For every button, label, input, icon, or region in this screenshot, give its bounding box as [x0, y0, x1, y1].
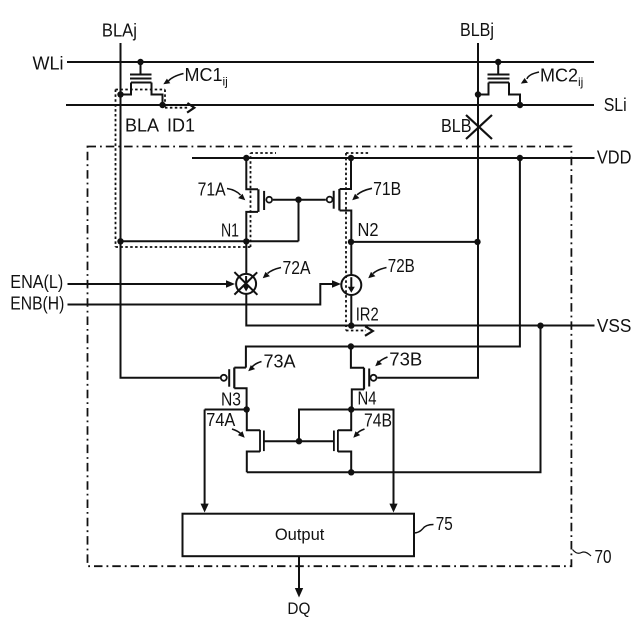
wire N1 to 72A: [245, 241, 247, 274]
arrowhead ID1 chevron: [187, 103, 194, 113]
leader MC1: [169, 74, 184, 82]
transistor MC2 source to SLi: [509, 83, 520, 106]
transistor MC1 channel: [131, 82, 152, 84]
wire common gate of 74A 74B: [264, 440, 334, 442]
svg-text:71B: 71B: [373, 179, 401, 199]
wire dashed ID1 arrow on SLi: [165, 107, 188, 109]
node 71B source on VDD: [348, 155, 354, 161]
node 74B source on rail: [348, 469, 354, 475]
node MC1 drain on BLA: [117, 91, 123, 97]
svg-text:SLi: SLi: [604, 95, 627, 115]
transistor 74A source: [247, 452, 260, 473]
transistor 73A gate bubble: [221, 375, 227, 381]
current source 72A circle: [236, 274, 256, 294]
svg-text:N4: N4: [358, 389, 377, 409]
node N1 at 71A drain: [243, 238, 249, 244]
svg-text:73B: 73B: [389, 349, 422, 369]
transistor 71B gate bubble: [327, 197, 333, 203]
svg-text:73A: 73A: [264, 351, 296, 371]
transistor 74A drain from N3: [247, 410, 260, 431]
wire ENB(H) input: [68, 284, 334, 305]
transistor MC1 source to SLi: [152, 83, 163, 106]
wire ENA(L) input: [68, 283, 228, 285]
transistor 74B channel: [337, 430, 339, 452]
transistor 71A source from VDD: [246, 158, 258, 189]
transistor 71A drain to N1: [246, 212, 258, 242]
leader 73A: [252, 362, 262, 368]
svg-text:WLi: WLi: [33, 53, 64, 73]
leader 70: [573, 550, 592, 557]
transistor MC1 floating gate bar: [130, 78, 152, 80]
transistor 74B drain from N4: [338, 410, 351, 431]
node gate junction 71 pair: [295, 197, 301, 203]
wire VDD rail: [192, 157, 595, 159]
wire N3 down to output with arrowhead: [204, 410, 206, 506]
transistor 71A channel: [257, 189, 259, 212]
node N1 at BLA: [117, 238, 123, 244]
transistor 73B drain to N4: [352, 389, 364, 409]
wire gate junction down to N1: [298, 200, 300, 242]
wire DQ output arrow: [298, 556, 300, 589]
block output 75 box: [183, 514, 415, 557]
transistor MC1 gate stub: [140, 62, 142, 74]
transistor 73A gate plate: [228, 369, 230, 387]
svg-text:71A: 71A: [198, 180, 226, 200]
transistor 73A channel: [233, 368, 235, 389]
wire dashed N1 current path: [116, 246, 251, 248]
wire dashed BLA current path: [115, 90, 117, 248]
node 71A source on VDD: [243, 155, 249, 161]
arrowhead IR2 chevron: [365, 326, 373, 336]
svg-text:BLAj: BLAj: [102, 20, 137, 40]
wire BLAj bit line with 73A gate wire: [121, 43, 220, 378]
node MC1 source on SLi: [159, 102, 165, 108]
wire dashed VDD hook A: [251, 152, 277, 154]
leader MC2: [527, 72, 539, 79]
leader 72B: [373, 268, 387, 274]
svg-text:BLA: BLA: [125, 116, 159, 136]
svg-text:ENA(L): ENA(L): [10, 272, 63, 292]
svg-text:ENB(H): ENB(H): [10, 294, 64, 314]
svg-text:72B: 72B: [388, 256, 415, 276]
current source 72A disable X: [234, 272, 257, 295]
node N3 junction: [243, 406, 249, 412]
svg-text:N2: N2: [358, 220, 379, 240]
transistor MC2 gate stub: [497, 62, 499, 74]
node MC2 gate on WLi: [495, 59, 501, 65]
leader 71A: [227, 189, 241, 196]
wire BLBj bit line with 73B gate wire: [377, 43, 478, 378]
node MC1 gate on WLi: [137, 59, 143, 65]
transistor 71A gate plate: [263, 191, 265, 210]
node 73B source on tail: [348, 343, 354, 349]
svg-text:70: 70: [595, 547, 612, 567]
wire dashed IR2 current path: [345, 153, 347, 331]
transistor 71B drain to N2: [340, 211, 352, 242]
node 72B on VSS: [348, 322, 354, 328]
transistor MC2 control gate bar: [488, 74, 510, 76]
leader 74A: [232, 429, 241, 434]
leader 73B: [379, 357, 388, 363]
transistor 73A drain to N3: [234, 388, 246, 409]
node 74 gate junction: [296, 438, 302, 444]
transistor MC1 control gate bar: [130, 74, 152, 76]
current source 72A internal arrow: [245, 276, 247, 287]
current source 72B internal arrow: [350, 277, 352, 288]
node MC2 drain on BLB: [475, 91, 481, 97]
wire node N2: [351, 241, 478, 243]
frame 70 dash-dot border: [88, 147, 572, 567]
node MC2 source on SLi: [517, 102, 523, 108]
wire VSS rail with 72A tail: [246, 294, 594, 326]
wire dashed ID1 current path top: [116, 89, 166, 91]
svg-text:74B: 74B: [364, 411, 392, 431]
svg-text:N1: N1: [221, 220, 239, 240]
svg-text:Output: Output: [275, 526, 325, 544]
svg-text:72A: 72A: [283, 258, 311, 278]
wire SLi source line: [66, 104, 594, 106]
transistor 74A channel: [259, 430, 261, 452]
wire node N4: [299, 410, 394, 506]
transistor MC1 drain to BLA: [121, 83, 132, 95]
wire 72B to VSS: [350, 295, 352, 326]
transistor 73B channel: [363, 368, 365, 390]
svg-text:BLBj: BLBj: [460, 20, 494, 40]
svg-text:DQ: DQ: [287, 599, 310, 618]
wire 73B source junction: [351, 347, 364, 368]
wire dashed IR2 arrow to VSS: [346, 330, 366, 332]
wire common gate of 71A 71B: [273, 199, 326, 201]
node N2 at BLB: [474, 239, 480, 245]
node VSS right junction: [537, 323, 543, 329]
transistor 71B source from VDD: [340, 158, 351, 189]
wire WLi word line: [67, 61, 594, 63]
wire node N3: [205, 409, 247, 411]
wire VDD tail to 73 pair sources: [246, 158, 520, 368]
svg-text:VDD: VDD: [597, 147, 632, 167]
leader 75: [414, 525, 434, 534]
wire node N1: [121, 240, 299, 242]
current source 72B circle: [341, 275, 361, 295]
transistor 71B gate plate: [333, 191, 335, 209]
svg-text:N3: N3: [221, 390, 241, 410]
node N4 junction: [348, 406, 354, 412]
wire dashed VDD hook B: [346, 152, 370, 154]
svg-text:75: 75: [436, 514, 453, 534]
transistor MC2 channel: [489, 82, 510, 84]
transistor 74B gate plate: [333, 431, 335, 452]
leader 71B: [357, 188, 372, 195]
transistor 73A top terminal: [234, 367, 246, 369]
svg-text:VSS: VSS: [597, 316, 632, 336]
svg-text:MC1ij: MC1ij: [185, 65, 228, 89]
svg-text:IR2: IR2: [356, 305, 379, 325]
transistor 73B gate plate: [368, 369, 370, 387]
leader 74B: [357, 429, 365, 434]
transistor 74A gate plate: [263, 431, 265, 452]
svg-text:74A: 74A: [206, 410, 235, 430]
transistor 73B gate bubble: [371, 375, 377, 381]
wire dashed ID1 through MC1: [164, 90, 166, 108]
wire dashed through 71A: [250, 153, 252, 247]
svg-text:ID1: ID1: [167, 116, 195, 136]
wire 74 source rail to VSS: [247, 326, 541, 473]
svg-text:BLB: BLB: [441, 116, 472, 136]
wire N2 to 72B: [350, 242, 352, 275]
transistor 71A gate bubble: [266, 197, 272, 203]
transistor MC2 drain to BLB: [478, 83, 489, 95]
node VDD tail junction: [517, 155, 523, 161]
transistor 74B source: [338, 452, 351, 473]
cross BLB disabled X: [466, 115, 492, 139]
leader 72A: [268, 268, 282, 274]
svg-text:MC2ij: MC2ij: [540, 66, 583, 90]
node N2 at 71B drain: [348, 239, 354, 245]
transistor 71B channel: [338, 189, 340, 211]
transistor MC2 floating gate bar: [488, 78, 510, 80]
